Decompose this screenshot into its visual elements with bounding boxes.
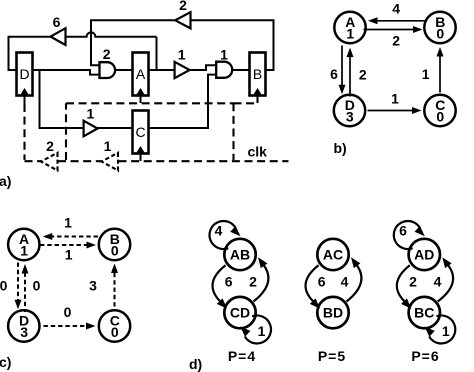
svg-text:2: 2 (409, 274, 417, 290)
clock branch left riser (65, 103, 67, 160)
svg-text:CD: CD (230, 305, 250, 321)
svg-text:BC: BC (414, 305, 434, 321)
clock stub to B (234, 99, 258, 103)
self loop AD weight 6 (394, 221, 420, 249)
svg-text:b): b) (334, 140, 347, 156)
buffer triangle weight 1 (A to B path) (175, 62, 190, 78)
svg-text:a): a) (0, 173, 11, 189)
svg-text:A: A (136, 66, 146, 82)
wire A output to buffer-1 input (149, 69, 175, 71)
edge D to A weight 2 (349, 56, 351, 97)
clock delay triangle 2 (dashed) (41, 153, 58, 171)
svg-text:4: 4 (392, 1, 400, 17)
svg-text:1: 1 (391, 91, 399, 107)
flip-flop C (133, 111, 149, 154)
edge B to A weight 4 (376, 20, 427, 22)
clock lead C (140, 152, 142, 161)
svg-text:1: 1 (65, 247, 73, 263)
node B0 (panel c) (99, 229, 130, 260)
PANEL B (330, 1, 456, 156)
svg-text:2: 2 (359, 67, 367, 83)
edge AB to CD weight 6 (left curve) (213, 265, 226, 301)
self loop BC weight 1 (429, 315, 455, 343)
svg-text:c): c) (0, 354, 11, 370)
svg-text:B: B (253, 66, 262, 82)
clock lead D (24, 94, 26, 104)
node BC (409, 297, 440, 328)
flip-flop A (133, 53, 149, 96)
clock arrowhead C (136, 146, 145, 153)
svg-text:1: 1 (87, 106, 95, 122)
svg-text:BD: BD (323, 305, 343, 321)
svg-text:AD: AD (414, 247, 434, 263)
edge D to A weight 0 (dashed) (24, 273, 26, 313)
node B0 (424, 12, 455, 43)
svg-text:4: 4 (215, 223, 223, 239)
svg-text:1: 1 (220, 47, 228, 63)
svg-text:P=5: P=5 (318, 348, 346, 364)
svg-text:0: 0 (64, 304, 72, 320)
node C0 (panel c) (99, 310, 130, 341)
edge A to D weight 0 (dashed) (17, 263, 19, 302)
svg-text:1: 1 (20, 243, 28, 259)
edge D to C weight 0 (dashed) (44, 325, 88, 327)
wire buffer-6 input horizontal with hop over vertical (66, 32, 157, 36)
wire node junction to buffer-6 input (156, 37, 158, 70)
node A1 (334, 12, 365, 43)
svg-text:d): d) (189, 356, 202, 372)
svg-text:1: 1 (64, 215, 72, 231)
svg-text:1: 1 (258, 323, 266, 339)
clock lead A (140, 94, 142, 103)
wire AND-2 output to A input (116, 69, 133, 71)
edge BC to AD weight 4 (right curve) (438, 265, 453, 302)
wire buffer-6 output to D input (9, 37, 51, 70)
node D3 (334, 95, 365, 126)
svg-text:4: 4 (341, 274, 349, 290)
svg-text:2: 2 (392, 32, 400, 48)
wire buffer-2 output down to AND-2 upper input (91, 20, 175, 65)
svg-text:2: 2 (103, 46, 111, 62)
svg-text:2: 2 (249, 274, 257, 290)
svg-text:1: 1 (178, 46, 186, 62)
edge B to A weight 1 (dashed) (51, 236, 98, 238)
clock arrowhead B (253, 88, 262, 95)
clock lead B (257, 94, 259, 103)
wire B output feedback to buffer-2 input (191, 20, 274, 70)
wire C output up to AND-1 lower input (149, 75, 217, 128)
svg-text:6: 6 (225, 274, 233, 290)
wire clk rail right segment (119, 160, 289, 162)
svg-text:4: 4 (434, 274, 442, 290)
flip-flop D (17, 53, 33, 96)
svg-text:1: 1 (442, 323, 450, 339)
svg-text:0: 0 (436, 26, 444, 42)
clock arrowhead A (136, 88, 145, 95)
edge D to C weight 1 (368, 110, 414, 112)
node AD (409, 239, 440, 270)
self loop CD weight 1 (245, 315, 271, 343)
node D3 (panel c) (8, 310, 39, 341)
svg-text:C: C (135, 124, 145, 140)
svg-text:AB: AB (230, 247, 250, 263)
svg-text:0: 0 (111, 243, 119, 259)
PANEL D (189, 221, 455, 372)
wire clk rail mid segment (58, 160, 101, 162)
clock line clk (main dashed rail) (25, 160, 42, 162)
svg-text:0: 0 (33, 278, 41, 294)
edge A to B weight 2 (364, 29, 415, 31)
svg-text:AC: AC (323, 247, 343, 263)
clock delay triangle 1 (dashed) (102, 153, 119, 171)
svg-text:1: 1 (346, 26, 354, 42)
svg-text:P=6: P=6 (411, 348, 439, 364)
node BD (317, 297, 348, 328)
svg-text:3: 3 (89, 278, 97, 294)
edge A to B weight 1 (dashed) (40, 244, 88, 246)
edge CD to AB weight 2 (right curve) (254, 265, 269, 302)
svg-text:6: 6 (53, 14, 61, 30)
node AC (317, 239, 348, 270)
wire buffer-1 output jog to AND-1 upper input (190, 65, 217, 70)
svg-text:1: 1 (104, 138, 112, 154)
AND gate U1 (weight 1) (216, 62, 232, 78)
svg-text:0: 0 (436, 109, 444, 125)
node AB (224, 239, 255, 270)
edge BD to AC weight 4 (right curve) (347, 265, 362, 302)
svg-text:6: 6 (330, 66, 338, 82)
clock top dashed rail (66, 102, 234, 104)
clock right riser (232, 103, 234, 160)
svg-text:6: 6 (399, 223, 407, 239)
PANEL C (0, 215, 130, 371)
edge C to B weight 3 (dashed) (114, 272, 116, 307)
node CD (224, 297, 255, 328)
flip-flop B (250, 53, 266, 96)
AND gate U2 (weight 2) (100, 62, 116, 78)
svg-text:clk: clk (248, 144, 268, 160)
svg-text:3: 3 (346, 109, 354, 125)
svg-text:D: D (19, 66, 29, 82)
node C0 (424, 95, 455, 126)
wire AND-1 output to B input (233, 69, 250, 71)
edge AD to BC weight 2 (left curve) (397, 265, 410, 301)
svg-text:1: 1 (422, 66, 430, 82)
edge A to D weight 6 (341, 46, 343, 87)
edge AC to BD weight 6 (left curve) (306, 265, 319, 301)
wire buffer-1 output to C input (98, 127, 133, 129)
edge C to B weight 1 (439, 56, 441, 93)
self loop AB weight 4 (209, 221, 235, 249)
svg-text:2: 2 (46, 138, 54, 154)
buffer triangle weight 2 (B feedback) (175, 12, 190, 28)
node A1 (panel c) (8, 229, 39, 260)
svg-text:6: 6 (318, 274, 326, 290)
svg-text:0: 0 (0, 278, 8, 294)
svg-text:P=4: P=4 (228, 348, 256, 364)
buffer triangle weight 1 (D to C path) (84, 121, 98, 137)
svg-text:2: 2 (179, 0, 187, 13)
buffer triangle weight 6 (A feedback to D) (51, 28, 66, 45)
wire junction D output down to buffer-1 input (40, 70, 84, 128)
clock branch to D (23, 104, 25, 160)
svg-text:0: 0 (111, 324, 119, 340)
wire D output to AND-2 lower input (33, 70, 100, 75)
svg-text:3: 3 (20, 324, 28, 340)
clock arrowhead D (20, 88, 29, 95)
